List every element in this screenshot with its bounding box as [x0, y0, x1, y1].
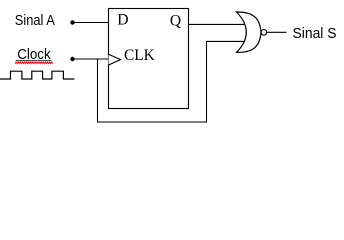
svg-text:Sinal S: Sinal S — [293, 26, 337, 42]
svg-text:CLK: CLK — [124, 47, 156, 64]
svg-text:Q: Q — [170, 12, 181, 29]
svg-text:D: D — [117, 12, 128, 29]
svg-text:Sinal A: Sinal A — [15, 13, 55, 29]
